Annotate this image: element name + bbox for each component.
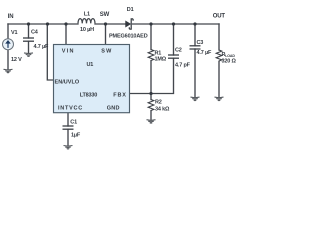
capacitor C4 (23, 38, 34, 41)
svg-text:R2: R2 (155, 100, 162, 106)
svg-text:U1: U1 (87, 62, 94, 68)
svg-text:C2: C2 (175, 47, 182, 53)
ground (R2) (147, 120, 156, 124)
svg-text:LT8330: LT8330 (80, 92, 98, 98)
wire C2 bottom to FBX node (151, 58, 174, 93)
svg-text:GND: GND (107, 105, 120, 111)
svg-text:34 kΩ: 34 kΩ (155, 106, 170, 112)
svg-text:D1: D1 (127, 7, 134, 13)
capacitor C2 (168, 55, 179, 58)
svg-text:OUT: OUT (213, 14, 226, 20)
wire RLOAD top (218, 24, 220, 50)
ground (C3) (191, 97, 200, 101)
svg-text:IN: IN (8, 14, 14, 20)
svg-text:C4: C4 (31, 30, 39, 36)
svg-text:V1: V1 (11, 30, 17, 36)
resistor R2 (148, 100, 154, 112)
wire R2 top (150, 94, 152, 100)
junction node VIN/IN (64, 22, 67, 25)
svg-text:C3: C3 (197, 40, 204, 46)
svg-text:L1: L1 (84, 12, 90, 18)
wire C3 bottom (194, 49, 196, 97)
svg-text:4.7 µF: 4.7 µF (197, 50, 212, 56)
svg-text:SW: SW (101, 49, 112, 55)
svg-text:PMEG6010AED: PMEG6010AED (109, 33, 148, 39)
resistor R1 (148, 50, 154, 62)
wire V1 bottom (7, 50, 9, 70)
resistor RLOAD (216, 50, 222, 62)
capacitor C1 (63, 126, 74, 129)
wire R2 bottom (150, 111, 152, 120)
svg-text:10 µH: 10 µH (80, 27, 94, 33)
wire SW rail (L1 to D1) (95, 23, 125, 25)
ground (V1) (4, 69, 13, 73)
svg-text:1µF: 1µF (71, 133, 81, 139)
wire C3 top (194, 24, 196, 46)
junction node SW (104, 22, 107, 25)
junction node FBX (149, 92, 152, 95)
junction node C3/OUT (193, 22, 196, 25)
IC U1 LT8330 (54, 45, 130, 113)
wire R1 bottom to FBX node (150, 61, 152, 94)
wire RLOAD bottom (218, 62, 220, 97)
wire OUT rail (133, 23, 219, 25)
ground (C4) (24, 53, 33, 57)
wire EN/UVLO (47, 24, 53, 80)
wire V1 top (7, 24, 9, 39)
wire FBX pin (130, 93, 152, 95)
inductor L1 (78, 19, 95, 24)
svg-text:SW: SW (100, 12, 110, 18)
capacitor C3 (190, 46, 201, 49)
junction node R1/OUT (149, 22, 152, 25)
svg-text:1MΩ: 1MΩ (155, 56, 167, 62)
wire SW pin (105, 24, 107, 45)
junction node EN/IN (46, 22, 49, 25)
wire INTVCC / C1 top (67, 113, 69, 126)
junction node C2/OUT (172, 22, 175, 25)
svg-text:4.7 pF: 4.7 pF (175, 63, 191, 69)
svg-text:FBX: FBX (113, 92, 126, 98)
svg-text:VIN: VIN (62, 49, 74, 55)
svg-text:320 Ω: 320 Ω (222, 58, 237, 64)
wire C4 top (28, 24, 30, 38)
wire C4 bottom (28, 41, 30, 52)
wire R1 top (150, 24, 152, 50)
ground (C1) (64, 146, 73, 150)
wire VIN pin (65, 24, 67, 45)
svg-text:INTVCC: INTVCC (58, 105, 82, 111)
junction node C4/IN (27, 22, 30, 25)
wire C2 top (173, 24, 175, 55)
wire IN rail top (8, 23, 78, 25)
svg-text:4.7 µF: 4.7 µF (34, 44, 49, 50)
ground (RLOAD) (215, 97, 224, 101)
voltage source V1 (3, 39, 14, 50)
svg-text:12 V: 12 V (11, 57, 22, 63)
wire C1 bottom (67, 129, 69, 145)
svg-text:C1: C1 (70, 120, 77, 126)
svg-text:EN/UVLO: EN/UVLO (55, 80, 80, 86)
diode D1 (125, 19, 133, 29)
